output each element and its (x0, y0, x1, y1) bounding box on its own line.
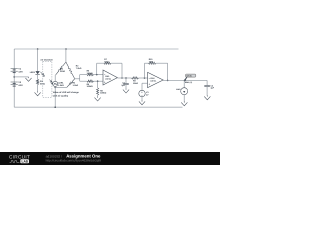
svg-text:Value of LDR will change: Value of LDR will change (53, 91, 80, 94)
ground under R8 (95, 97, 101, 101)
svg-text:http://circuitlab.com/c/9ycv46: http://circuitlab.com/c/9ycv4638e5dr2qf8 (46, 158, 102, 162)
node bridge column on bottom rail (54, 106, 56, 108)
voltmeter MM1 (176, 88, 187, 95)
footer bar (0, 152, 220, 165)
wire R1 to ground (37, 85, 39, 92)
output flag (185, 74, 196, 84)
svg-text:MM1 (V): MM1 (V) (185, 81, 193, 84)
voltage source V3 (139, 90, 150, 97)
resistor R7 feedback (104, 58, 111, 64)
resistor R2 bridge upper-left arm (56, 62, 66, 75)
photoresistor LDR1 (53, 81, 65, 87)
ground under V3 (139, 100, 145, 104)
resistor R6 (87, 80, 94, 88)
resistor R1 (37, 79, 46, 85)
wire feedback top right (111, 62, 122, 64)
capacitor C2 (204, 84, 214, 89)
svg-text:10kΩ: 10kΩ (133, 82, 138, 85)
air chamber enclosure (40, 58, 53, 97)
wire bridge top (65, 49, 67, 62)
wire top supply rail (14, 48, 178, 50)
svg-text:100kΩ: 100kΩ (87, 85, 93, 88)
wire V3 to ground (141, 97, 143, 101)
op-amp OA1 (103, 70, 117, 85)
svg-text:7.5kΩ: 7.5kΩ (76, 67, 82, 70)
node feedback2-output junction (167, 80, 169, 82)
wire mid-supply to ground (14, 76, 28, 78)
ground mid-supply (25, 77, 31, 81)
node feedback-output junction (121, 77, 123, 79)
svg-text:LED1: LED1 (30, 71, 36, 74)
svg-text:100kΩ: 100kΩ (100, 92, 106, 95)
resistor R8 to ground (97, 88, 107, 95)
wire opamp2 noninverting (142, 83, 148, 90)
resistor R9 series (132, 77, 139, 85)
wire R6 to opamp1 (94, 80, 104, 82)
wire left battery column (13, 49, 15, 107)
wire LED to R1 (37, 75, 39, 80)
wire feedback2 top left (145, 62, 149, 64)
svg-text:4.5V: 4.5V (18, 70, 23, 73)
node bridge bottom-left (54, 87, 56, 89)
node C1 junction (125, 77, 127, 79)
node opamp1 noninverting input (97, 80, 99, 82)
op-amp OA2 (148, 72, 164, 87)
ground under C2 (204, 95, 210, 99)
wire C2 to ground (206, 87, 208, 96)
wire bridge output stub (75, 75, 80, 82)
wire opamp1 feedback riser (96, 63, 98, 74)
svg-text:MM1: MM1 (176, 88, 180, 91)
node mid-supply junction (13, 76, 15, 78)
resistor R4 bridge lower-right arm (67, 79, 79, 88)
title text (46, 154, 102, 163)
wire bridge to R5 (80, 74, 87, 76)
wire LDR to bottom corner (54, 86, 56, 89)
resistor R10 feedback (148, 58, 156, 64)
svg-text:1MΩ: 1MΩ (149, 60, 154, 63)
resistor R3 bridge upper-right arm (66, 62, 82, 79)
svg-text:Air Chamber: Air Chamber (40, 58, 53, 61)
node LED branch on rail (37, 48, 39, 50)
CircuitLab logo wordmark (9, 155, 30, 164)
svg-text:with air quality: with air quality (53, 95, 69, 98)
wire feedback2 top right (156, 62, 168, 64)
ground under voltmeter (181, 101, 187, 105)
svg-text:4.5V: 4.5V (18, 84, 23, 87)
capacitor C1 (121, 81, 128, 86)
wire LED branch upper (37, 49, 39, 71)
wire feedback top left (97, 62, 104, 64)
annotation LDR note (53, 91, 80, 98)
svg-text:1.0kΩ: 1.0kΩ (58, 84, 64, 87)
wire bridge to bottom rail (54, 87, 56, 107)
svg-text:1.2kΩ: 1.2kΩ (73, 84, 79, 87)
wire C2 drop (206, 80, 208, 85)
svg-text:1MΩ: 1MΩ (104, 60, 109, 63)
wire bridge to R6 (80, 80, 87, 82)
LED D1 (30, 71, 40, 75)
wire to voltmeter (183, 80, 185, 87)
ground under C1 (123, 89, 129, 93)
node opamp1 inverting input (96, 74, 98, 76)
wire opamp1 output (117, 77, 131, 79)
wire opamp2 output (163, 79, 207, 81)
wire bottom rail (14, 106, 182, 108)
svg-text:LM741: LM741 (150, 80, 156, 83)
svg-text:LM741: LM741 (105, 78, 111, 81)
wire C1 drop (125, 78, 127, 83)
wire bridge left corner to LDR (54, 75, 56, 81)
node output junction (184, 79, 186, 81)
light arrows into LDR (49, 80, 52, 84)
svg-text:LAB: LAB (22, 160, 29, 164)
wire bridge bottom (55, 86, 66, 88)
node bridge branch on rail (65, 48, 67, 50)
wire R9 to opamp2 (139, 77, 148, 79)
wire opamp2 feedback riser (144, 63, 146, 78)
ground LED branch (35, 91, 41, 95)
svg-text:300Ω: 300Ω (60, 70, 65, 73)
battery V2 (11, 81, 24, 87)
resistor R5 (87, 70, 94, 76)
wire noninverting to R8 (97, 81, 99, 88)
svg-text:SPKR1: SPKR1 (186, 75, 192, 78)
wire feedback2 drop (167, 63, 169, 80)
wire voltmeter to ground (183, 95, 185, 103)
wire C1 to ground (125, 85, 127, 89)
battery V1 (11, 68, 24, 74)
wire R8 to ground (97, 95, 99, 97)
LED emission arrows (40, 72, 44, 76)
wire R5 to opamp1 (94, 74, 104, 76)
svg-text:100kΩ: 100kΩ (87, 72, 93, 75)
wire feedback drop (121, 63, 123, 78)
node opamp2 inverting input (144, 77, 146, 79)
